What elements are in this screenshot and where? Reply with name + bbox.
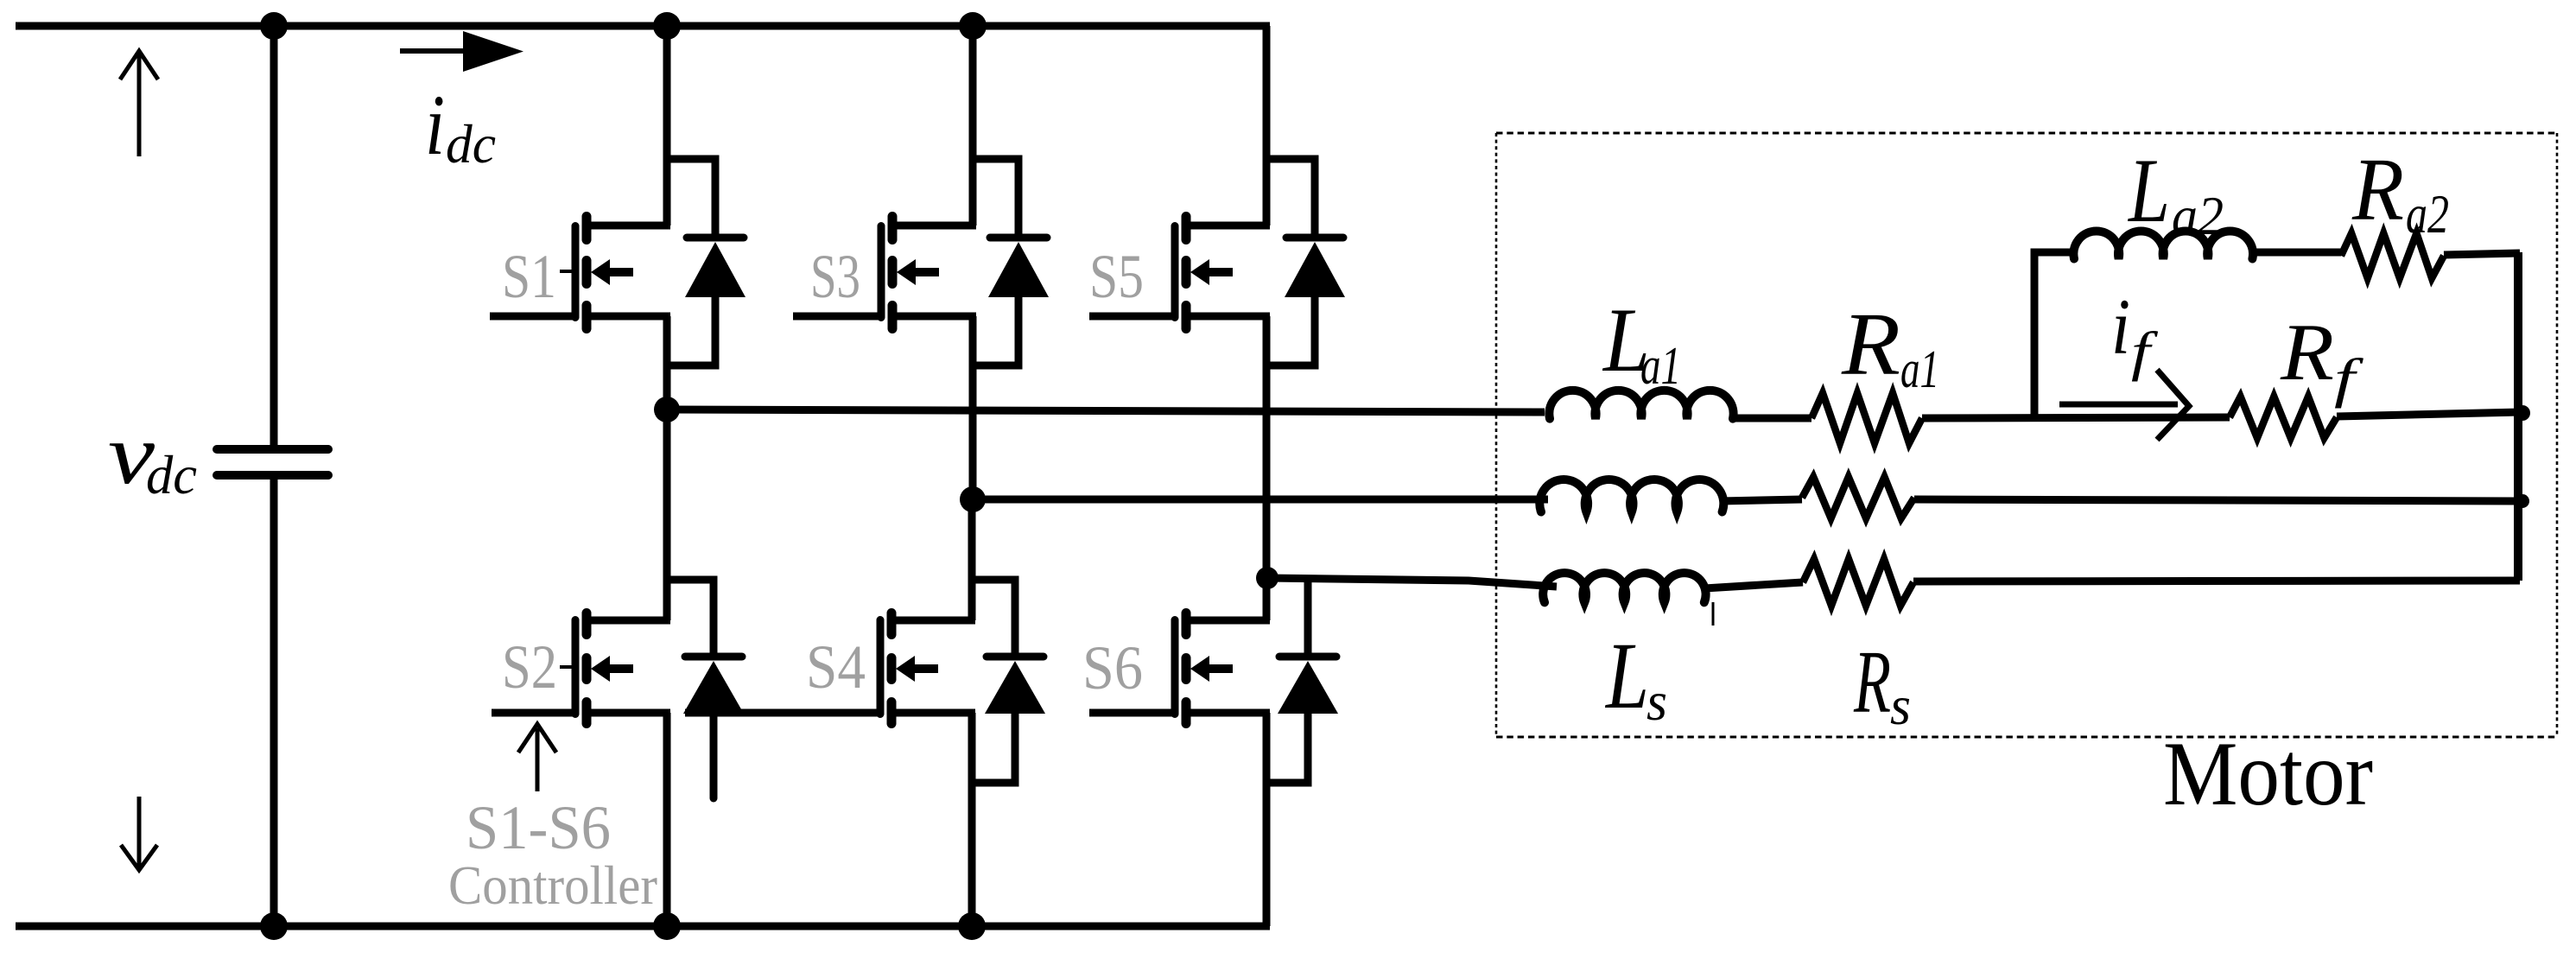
diode D6 bbox=[1266, 580, 1338, 783]
node phase B junction bbox=[960, 486, 986, 512]
wire S4 gate lead extension bbox=[685, 709, 880, 717]
wire phase B resistor to right bus bbox=[1914, 499, 2518, 501]
resistor Ra1 bbox=[1811, 393, 1922, 443]
wire S6 source leg bbox=[1263, 713, 1271, 926]
transistor S1 bbox=[490, 217, 670, 329]
resistor Ra2 bbox=[2341, 233, 2444, 278]
wire S3 drain leg bbox=[969, 26, 977, 225]
wire capacitor bottom lead bbox=[270, 479, 278, 926]
node phase C junction bbox=[1256, 567, 1278, 589]
node top bus / S1 leg junction bbox=[653, 12, 681, 40]
wire S1 source leg bbox=[663, 316, 671, 410]
wire S5 drain leg bbox=[1263, 26, 1271, 225]
svg-text:S5: S5 bbox=[1089, 242, 1144, 311]
resistor Rf bbox=[2230, 397, 2337, 438]
wire bottom DC bus bbox=[16, 923, 1270, 930]
node right bus phase B bbox=[2516, 494, 2529, 508]
svg-text:S1-S6: S1-S6 bbox=[466, 793, 611, 862]
svg-text:a1: a1 bbox=[1900, 340, 1939, 399]
node phase A junction bbox=[654, 397, 680, 422]
wire field branch Ra2 to corner bbox=[2444, 253, 2520, 255]
arrow vdc down bbox=[121, 797, 157, 870]
svg-text:R: R bbox=[1841, 295, 1900, 394]
svg-text:R: R bbox=[2280, 308, 2334, 397]
transistor S6 bbox=[1089, 613, 1270, 724]
svg-text:s: s bbox=[1646, 670, 1667, 732]
arrow controller gate pointer bbox=[518, 724, 556, 791]
svg-text:a2: a2 bbox=[2172, 185, 2224, 246]
wire S1 drain leg bbox=[663, 26, 671, 225]
wire top DC bus bbox=[16, 22, 1270, 30]
diode D2 bbox=[667, 580, 744, 798]
diode D3 bbox=[973, 159, 1049, 365]
wire phase A coil to resistor bbox=[1733, 415, 1811, 422]
svg-text:S1: S1 bbox=[502, 242, 556, 311]
motor dashed box bbox=[1496, 133, 2557, 737]
wire S1 label tick bbox=[560, 270, 574, 273]
wire S2 label tick bbox=[560, 665, 574, 669]
wire capacitor top lead bbox=[270, 26, 278, 446]
svg-text:L: L bbox=[2127, 140, 2170, 241]
svg-text:Controller: Controller bbox=[448, 854, 657, 916]
wire phase A Rf to right bus bbox=[2337, 412, 2520, 416]
svg-text:s: s bbox=[1890, 675, 1911, 736]
arrow idc current bbox=[400, 31, 523, 72]
svg-text:S4: S4 bbox=[806, 632, 866, 702]
svg-text:L: L bbox=[1604, 623, 1649, 728]
transistor S4 bbox=[880, 613, 975, 724]
inductor La2 bbox=[2073, 232, 2253, 259]
diode D5 bbox=[1266, 159, 1345, 365]
svg-text:dc: dc bbox=[446, 113, 496, 175]
svg-text:S2: S2 bbox=[502, 632, 557, 702]
wire S3 source leg bbox=[969, 316, 977, 499]
svg-text:a1: a1 bbox=[1640, 337, 1681, 396]
arrow if current bbox=[2059, 370, 2189, 440]
svg-text:i: i bbox=[2111, 283, 2130, 371]
wire phase B coil to resistor bbox=[1720, 499, 1802, 501]
wire S4 source leg bbox=[968, 713, 976, 926]
node bottom bus / S2 leg junction bbox=[653, 912, 681, 940]
wire phase C coil to resistor bbox=[1704, 582, 1803, 588]
node top bus / capacitor junction bbox=[260, 12, 288, 40]
svg-text:a2: a2 bbox=[2406, 183, 2449, 245]
inductor Ls phase B bbox=[1539, 479, 1723, 511]
wire phase C resistor to right bus bbox=[1913, 581, 2520, 581]
diode D1 bbox=[667, 159, 746, 365]
transistor S2 bbox=[492, 613, 670, 724]
wire S6 drain leg bbox=[1263, 578, 1271, 620]
svg-text:S6: S6 bbox=[1082, 633, 1143, 702]
wire phase B to motor bbox=[973, 496, 1548, 504]
arrow vdc up bbox=[120, 51, 158, 156]
wire phase C to motor bbox=[1267, 578, 1557, 587]
wire field branch coil to Ra2 bbox=[2253, 249, 2341, 257]
diode D4 bbox=[972, 580, 1045, 783]
svg-text:R: R bbox=[1853, 632, 1891, 732]
svg-text:S3: S3 bbox=[810, 242, 860, 311]
resistor Rs phase C bbox=[1803, 559, 1913, 606]
wire S5 source leg bbox=[1263, 316, 1271, 578]
wire S2 drain leg bbox=[663, 410, 671, 620]
wire S2 source leg bbox=[663, 713, 671, 926]
resistor Rs phase B bbox=[1802, 477, 1914, 518]
wire phase C coil stub bbox=[1712, 602, 1715, 626]
transistor S3 bbox=[793, 217, 976, 329]
node bottom bus / S4 leg junction bbox=[958, 912, 986, 940]
wire S4 drain leg bbox=[968, 499, 976, 620]
capacitor Cdc bbox=[217, 449, 328, 475]
wire field branch riser bbox=[2034, 252, 2074, 417]
svg-text:i: i bbox=[425, 77, 445, 173]
node right bus phase A bbox=[2515, 405, 2530, 421]
transistor S5 bbox=[1089, 217, 1270, 329]
wire phase A to motor bbox=[667, 410, 1545, 412]
svg-text:R: R bbox=[2351, 140, 2404, 239]
inductor Ls phase C bbox=[1543, 573, 1705, 602]
inductor La1 bbox=[1549, 391, 1733, 419]
svg-text:dc: dc bbox=[146, 444, 197, 505]
wire phase A resistor to Rf bbox=[1922, 417, 2230, 418]
node bottom bus / capacitor junction bbox=[260, 912, 288, 940]
svg-text:Motor: Motor bbox=[2163, 723, 2373, 824]
wire right vertical bus bbox=[2514, 252, 2522, 581]
node top bus / S3 leg junction bbox=[959, 12, 987, 40]
